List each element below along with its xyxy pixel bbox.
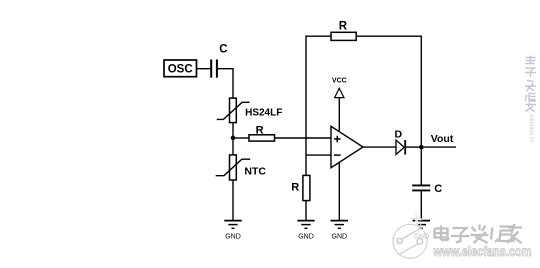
- thermistor HS24LF: [217, 98, 250, 123]
- ground (op-amp): [331, 221, 348, 241]
- logo circle: [393, 224, 427, 258]
- right edge vertical watermark: [525, 56, 536, 112]
- svg-text:www.elecfans.com: www.elecfans.com: [433, 244, 532, 259]
- wire VCC to op-amp: [338, 98, 340, 132]
- wire feedback left vertical: [305, 36, 307, 176]
- thermistor NTC: [216, 155, 251, 180]
- wire OSC to capacitor C: [197, 68, 211, 70]
- wire node A to resistor R (input): [233, 137, 249, 139]
- diode D: [396, 140, 405, 155]
- wire HS24LF to node A: [232, 123, 234, 138]
- wire top feedback left segment: [305, 35, 331, 37]
- wire feedback right vertical to output node: [420, 36, 422, 148]
- VCC arrow symbol: [335, 88, 344, 97]
- op-amp U1: [331, 126, 363, 167]
- ground (R divider): [297, 221, 314, 241]
- wire diode to output node: [406, 146, 421, 148]
- wire resistor R to op-amp + input: [275, 137, 332, 139]
- wire op-amp output to diode: [363, 146, 396, 148]
- wire capacitor C to ground: [420, 191, 422, 220]
- output node junction dot: [419, 145, 424, 150]
- wire node A to NTC: [232, 138, 234, 155]
- node A junction dot: [231, 136, 236, 141]
- wire top feedback right segment: [356, 35, 421, 37]
- ground (filter cap): [413, 221, 430, 241]
- wire op-amp minus input: [306, 154, 331, 156]
- wire NTC to ground: [232, 180, 234, 220]
- svg-text:elecfans.cn: elecfans.cn: [528, 115, 534, 143]
- wire resistor R to ground: [305, 201, 307, 220]
- capacitor C (coupling): [211, 60, 217, 78]
- resistor R (input, series): [249, 135, 275, 141]
- resistor R (to ground): [303, 175, 310, 200]
- resistor R (feedback): [331, 32, 356, 40]
- wire output node to Vout: [421, 146, 456, 148]
- wire output node to capacitor C (filter): [420, 147, 422, 185]
- OSC source box: [164, 60, 197, 77]
- watermark chinese text 电子发烧友: [435, 224, 523, 243]
- ground (NTC): [224, 221, 241, 241]
- capacitor C (filter): [412, 185, 430, 190]
- wire op-amp negative supply to ground: [338, 163, 340, 221]
- wire capacitor to top of HS24LF: [218, 69, 233, 99]
